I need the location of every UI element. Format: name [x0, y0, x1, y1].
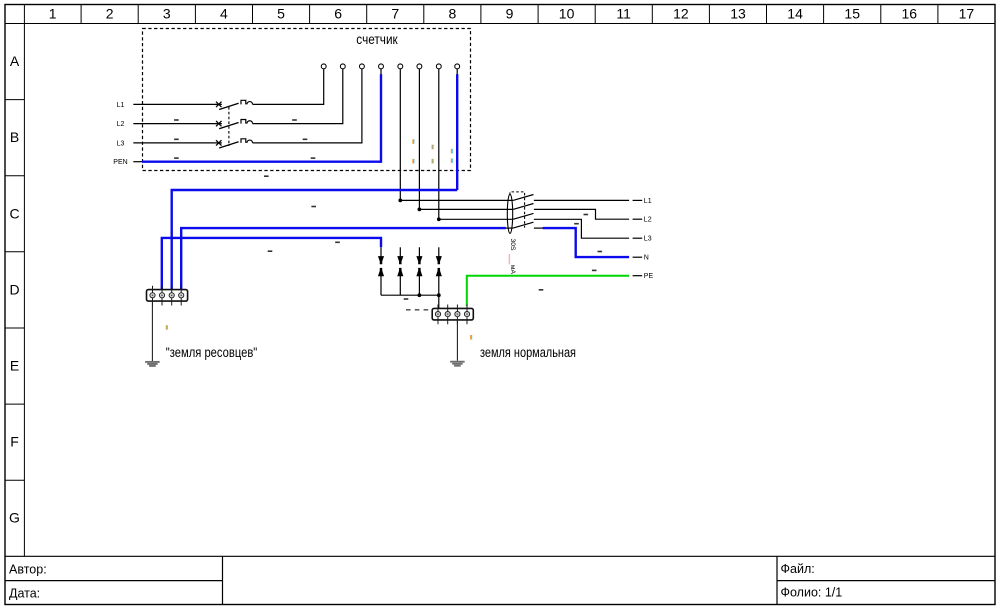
svg-text:PEN: PEN — [113, 159, 127, 166]
wire N3 (blue) from terminal X1:2 to arrow connector P1 — [162, 238, 381, 290]
svg-text:11: 11 — [616, 6, 631, 22]
terminal X2:1 — [437, 305, 439, 325]
meter enclosure (dashed box) U1 — [143, 29, 471, 171]
svg-text:Дата:: Дата: — [9, 587, 40, 601]
meter terminal pin 1 — [323, 69, 325, 75]
wire N RCD output (blue) — [534, 227, 543, 229]
breaker QF1 mechanical link (dashed) — [228, 107, 230, 146]
wire L1 RCD output — [534, 199, 629, 201]
svg-text:N: N — [644, 255, 649, 262]
ground symbol E1 — [145, 362, 160, 366]
dashed wire stub to X2 — [406, 309, 432, 311]
wire bus below connectors — [381, 294, 439, 296]
net label L1 pin — [633, 199, 643, 201]
junction node L1 — [398, 199, 402, 203]
meter terminal pin 7 — [438, 69, 440, 75]
svg-text:F: F — [10, 434, 19, 450]
svg-text:E: E — [10, 358, 19, 374]
wire N2 (blue) to RCD pole4 from terminal X1:4 — [181, 228, 506, 290]
svg-text:Автор:: Автор: — [9, 563, 47, 577]
svg-text:16: 16 — [902, 6, 918, 22]
svg-text:PE: PE — [644, 273, 654, 280]
svg-text:8: 8 — [449, 6, 457, 22]
terminal block X2 body — [432, 308, 473, 320]
meter terminal pin 5 — [399, 69, 401, 75]
RCD Q1 rating label 30S mA (rotated) — [509, 239, 516, 275]
RCD Q1 linkage (dashed) — [510, 192, 525, 228]
svg-text:Фолио: 1/1: Фолио: 1/1 — [781, 586, 843, 600]
wire to ground E1 — [151, 301, 153, 361]
svg-text:7: 7 — [391, 6, 399, 22]
svg-text:D: D — [9, 281, 19, 297]
meter terminal pin 4 — [380, 69, 382, 75]
RCD Q1 toroid (ellipse) — [507, 194, 512, 233]
svg-text:5: 5 — [277, 6, 285, 22]
svg-text:L2: L2 — [644, 217, 652, 224]
connector arrow pair P2 (down) — [399, 247, 401, 256]
wire bus to terminal X2:1 — [438, 295, 440, 309]
terminal X1:2 — [161, 286, 163, 306]
svg-text:L3: L3 — [644, 236, 652, 243]
breaker QF1 pole 3 (L3) — [133, 139, 252, 148]
wire meter terminal 5 down — [399, 74, 401, 200]
connector arrow pair P3 (down) — [418, 247, 420, 256]
svg-text:"земля ресовцев": "земля ресовцев" — [166, 345, 258, 360]
RCD Q1 blade pole 1 — [513, 195, 534, 201]
net label L2 pin — [633, 218, 643, 220]
wire L3 RCD output (step down) — [534, 219, 629, 238]
svg-text:2: 2 — [106, 6, 114, 22]
net label PE pin — [633, 275, 643, 277]
svg-text:счетчик: счетчик — [356, 32, 397, 47]
wire PE (green) — [467, 276, 629, 306]
svg-text:10: 10 — [559, 6, 575, 22]
junction node L3 — [437, 217, 441, 221]
meter terminal pin 8 — [456, 69, 458, 75]
svg-text:30S: 30S — [509, 239, 516, 252]
meter terminal pin 6 — [418, 69, 420, 75]
junction node L2 — [418, 208, 422, 212]
wire L3 feed to RCD — [439, 218, 513, 220]
wire L1 to meter terminal 1 — [253, 74, 324, 104]
wire meter terminal 7 down — [438, 74, 440, 219]
svg-text:мА: мА — [509, 265, 516, 275]
RCD Q1 blade pole 2 — [513, 204, 534, 210]
connector arrow pair P4 (down) — [438, 247, 440, 256]
svg-text:B: B — [10, 129, 19, 145]
wire L2 feed to RCD — [419, 208, 513, 210]
connector arrow pair P1 (up) — [378, 268, 384, 276]
svg-text:15: 15 — [844, 6, 860, 22]
svg-text:Файл:: Файл: — [781, 562, 815, 576]
wire meter terminal 6 down — [418, 74, 420, 209]
svg-text:C: C — [9, 205, 19, 221]
connector arrow pair P3 (up) — [416, 268, 422, 276]
svg-text:G: G — [9, 510, 20, 526]
wire to ground E2 — [456, 320, 458, 361]
junction node bus-2 — [437, 293, 441, 297]
svg-text:L2: L2 — [117, 121, 125, 128]
wire L3 to meter terminal 3 — [253, 74, 362, 143]
terminal X1:4 — [180, 286, 182, 306]
connector arrow pair P1 (down) — [380, 247, 382, 256]
RCD Q1 blade pole 3 — [513, 213, 534, 219]
RCD Q1 blade pole 4 — [513, 222, 534, 228]
terminal X1:3 — [171, 286, 173, 306]
breaker QF1 pole 1 (L1) — [133, 100, 252, 109]
svg-text:L3: L3 — [117, 140, 125, 147]
junction node bus-1 — [418, 293, 422, 297]
breaker QF1 pole 2 (L2) — [133, 120, 252, 129]
connector arrow pair P2 (up) — [397, 268, 403, 276]
meter terminal pin 2 — [342, 69, 344, 75]
svg-text:14: 14 — [787, 6, 803, 22]
conductor text marks — [174, 119, 602, 300]
conductor text marks (vertical) — [166, 139, 472, 339]
wire L2 to meter terminal 2 — [253, 74, 343, 123]
terminal X2:2 — [447, 305, 449, 325]
svg-text:3: 3 — [163, 6, 171, 22]
terminal block X1 body — [147, 290, 188, 302]
svg-text:1: 1 — [49, 6, 57, 22]
svg-text:12: 12 — [673, 6, 689, 22]
svg-text:17: 17 — [959, 6, 975, 22]
svg-text:13: 13 — [730, 6, 746, 22]
wire meter terminal 8 down (blue) — [456, 74, 458, 190]
svg-text:земля нормальная: земля нормальная — [480, 345, 576, 360]
terminal X1:1 — [152, 286, 154, 306]
svg-text:4: 4 — [220, 6, 228, 22]
svg-text:L1: L1 — [117, 102, 125, 109]
meter terminal pin 3 — [361, 69, 363, 75]
terminal X2:3 — [456, 305, 458, 325]
connector arrow pair P4 (up) — [436, 268, 442, 276]
svg-text:A: A — [10, 53, 20, 69]
svg-text:L1: L1 — [644, 198, 652, 205]
wire N1 (blue) from meter 8 to terminal X1:3 — [172, 190, 458, 290]
net label L3 pin — [633, 237, 643, 239]
svg-text:6: 6 — [334, 6, 342, 22]
net label N pin — [633, 256, 643, 258]
wire L2 RCD output (step down) — [534, 209, 629, 219]
wire N feed to RCD (black stub) — [506, 227, 513, 229]
ground symbol E2 — [450, 362, 465, 366]
terminal X2:4 — [466, 305, 468, 325]
wire L1 feed to RCD — [400, 199, 513, 201]
wire PEN (blue) to meter terminal 4 — [133, 161, 142, 163]
svg-text:9: 9 — [506, 6, 514, 22]
